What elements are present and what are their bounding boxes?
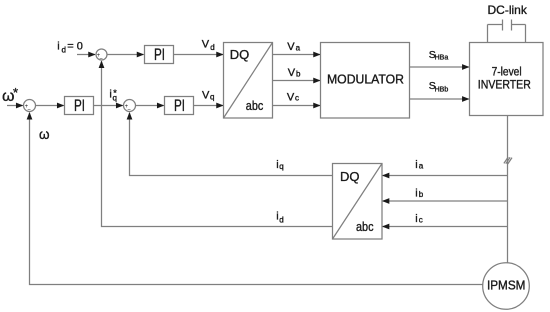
svg-text:a: a xyxy=(419,162,424,171)
svg-text:abc: abc xyxy=(246,98,264,113)
svg-text:−: − xyxy=(27,107,31,113)
svg-text:c: c xyxy=(295,94,299,103)
svg-text:DQ: DQ xyxy=(340,169,360,184)
svg-text:a: a xyxy=(296,43,301,52)
svg-text:= 0: = 0 xyxy=(67,41,83,53)
svg-text:V: V xyxy=(202,38,210,50)
svg-text:PI: PI xyxy=(154,46,165,64)
svg-text:b: b xyxy=(296,69,301,78)
svg-text:i: i xyxy=(415,188,417,200)
svg-text:V: V xyxy=(202,90,210,102)
svg-text:i: i xyxy=(57,41,59,53)
svg-text:−: − xyxy=(99,56,103,62)
svg-text:V: V xyxy=(288,67,296,79)
svg-text:PI: PI xyxy=(74,97,85,115)
svg-text:V: V xyxy=(287,41,295,53)
svg-text:*: * xyxy=(113,88,117,98)
svg-text:7-level: 7-level xyxy=(492,67,522,79)
svg-text:abc: abc xyxy=(356,219,374,234)
svg-text:−: − xyxy=(127,107,131,113)
svg-text:DC-link: DC-link xyxy=(488,3,528,17)
svg-text:d: d xyxy=(62,45,66,54)
svg-text:PI: PI xyxy=(174,97,185,115)
svg-text:c: c xyxy=(419,216,423,225)
svg-text:MODULATOR: MODULATOR xyxy=(327,73,404,87)
svg-text:q: q xyxy=(279,162,283,171)
svg-text:V: V xyxy=(287,91,295,103)
svg-text:i: i xyxy=(415,213,417,225)
svg-text:d: d xyxy=(210,43,214,52)
svg-text:INVERTER: INVERTER xyxy=(478,80,531,92)
svg-text:ω: ω xyxy=(39,127,50,142)
svg-text:b: b xyxy=(419,190,424,199)
svg-text:HBa: HBa xyxy=(435,54,449,61)
svg-text:i: i xyxy=(109,89,111,101)
svg-text:q: q xyxy=(210,93,214,102)
svg-text:HBb: HBb xyxy=(435,86,449,93)
svg-text:d: d xyxy=(279,216,283,225)
svg-text:*: * xyxy=(13,85,18,100)
svg-text:IPMSM: IPMSM xyxy=(487,279,526,293)
svg-text:i: i xyxy=(415,159,417,171)
svg-text:DQ: DQ xyxy=(230,47,250,62)
